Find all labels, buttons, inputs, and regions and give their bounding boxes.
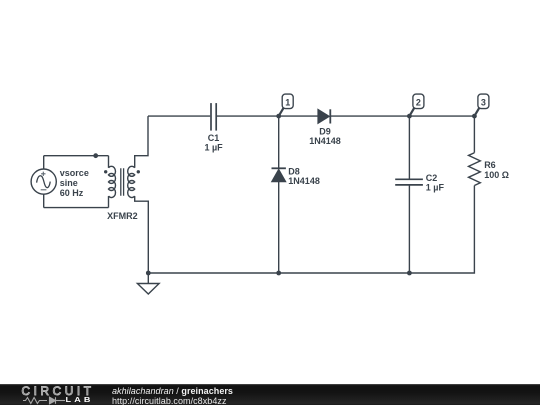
wire C2 to bottom rail <box>408 185 410 273</box>
wire source bottom lead <box>43 194 45 207</box>
junction dot node 3 top <box>472 114 477 119</box>
label R6 100ohm <box>484 160 509 180</box>
svg-text:3: 3 <box>481 98 486 108</box>
diode D8 <box>272 168 286 181</box>
wire secondary top lead <box>135 116 148 168</box>
wire primary top lead <box>108 156 110 168</box>
label C1 1uF <box>204 133 223 153</box>
svg-text:1 µF: 1 µF <box>426 183 445 193</box>
wire D8 to bottom rail <box>278 182 280 273</box>
svg-text:100 Ω: 100 Ω <box>484 170 509 180</box>
wire bottom-left horizontal <box>44 207 109 209</box>
wire node1 to D8 <box>278 116 280 168</box>
svg-text:D8: D8 <box>288 166 300 176</box>
node 3 flag <box>474 94 489 116</box>
svg-text:C2: C2 <box>426 173 438 183</box>
svg-text:vsorce: vsorce <box>60 168 89 178</box>
ground <box>137 273 159 294</box>
footer bar <box>0 384 540 405</box>
svg-text:1: 1 <box>285 98 290 108</box>
junction dot node 2 top <box>407 114 412 119</box>
svg-text:60 Hz: 60 Hz <box>60 188 84 198</box>
wire primary bottom lead <box>108 196 110 208</box>
wire top rail D9 to node3 <box>330 115 474 117</box>
wire source top lead <box>43 156 45 169</box>
label XFMR2 <box>107 211 138 221</box>
svg-text:2: 2 <box>416 98 421 108</box>
voltage source V1 vsorce <box>31 169 56 194</box>
wire node3 to R6 <box>473 116 475 153</box>
junction dot bottom node2 column <box>407 271 412 276</box>
junction dot bottom node1 column <box>276 271 281 276</box>
svg-text:C1: C1 <box>208 133 220 143</box>
transformer XFMR2 <box>104 166 140 197</box>
svg-text:sine: sine <box>60 178 78 188</box>
wire top rail left of C1 <box>148 115 210 117</box>
svg-text:1N4148: 1N4148 <box>309 136 341 146</box>
svg-text:XFMR2: XFMR2 <box>107 211 138 221</box>
wire R6 to bottom rail corner <box>148 186 474 274</box>
svg-text:1N4148: 1N4148 <box>288 176 320 186</box>
svg-text:R6: R6 <box>484 160 496 170</box>
wire top-left horizontal <box>44 155 109 157</box>
junction dot node 1 top <box>276 114 281 119</box>
wire secondary bottom lead <box>135 196 149 273</box>
svg-text:D9: D9 <box>319 127 331 137</box>
node 1 flag <box>279 94 294 116</box>
label D8 1N4148 <box>288 166 320 186</box>
diode D9 <box>318 109 330 123</box>
CircuitLab logo <box>22 386 95 398</box>
label D9 1N4148 <box>309 127 341 147</box>
resistor R6 <box>469 153 481 186</box>
junction dot on top-left wire <box>93 153 98 158</box>
wire top rail C1 to D9 <box>217 115 318 117</box>
label C2 1uF <box>426 173 445 193</box>
node 2 flag <box>409 94 424 116</box>
wire node2 to C2 <box>408 116 410 179</box>
label vsorce sine 60 Hz <box>60 168 89 198</box>
capacitor C1 <box>211 103 216 131</box>
svg-text:1 µF: 1 µF <box>204 143 223 153</box>
junction dot bottom ground <box>146 271 151 276</box>
capacitor C2 <box>395 179 423 185</box>
